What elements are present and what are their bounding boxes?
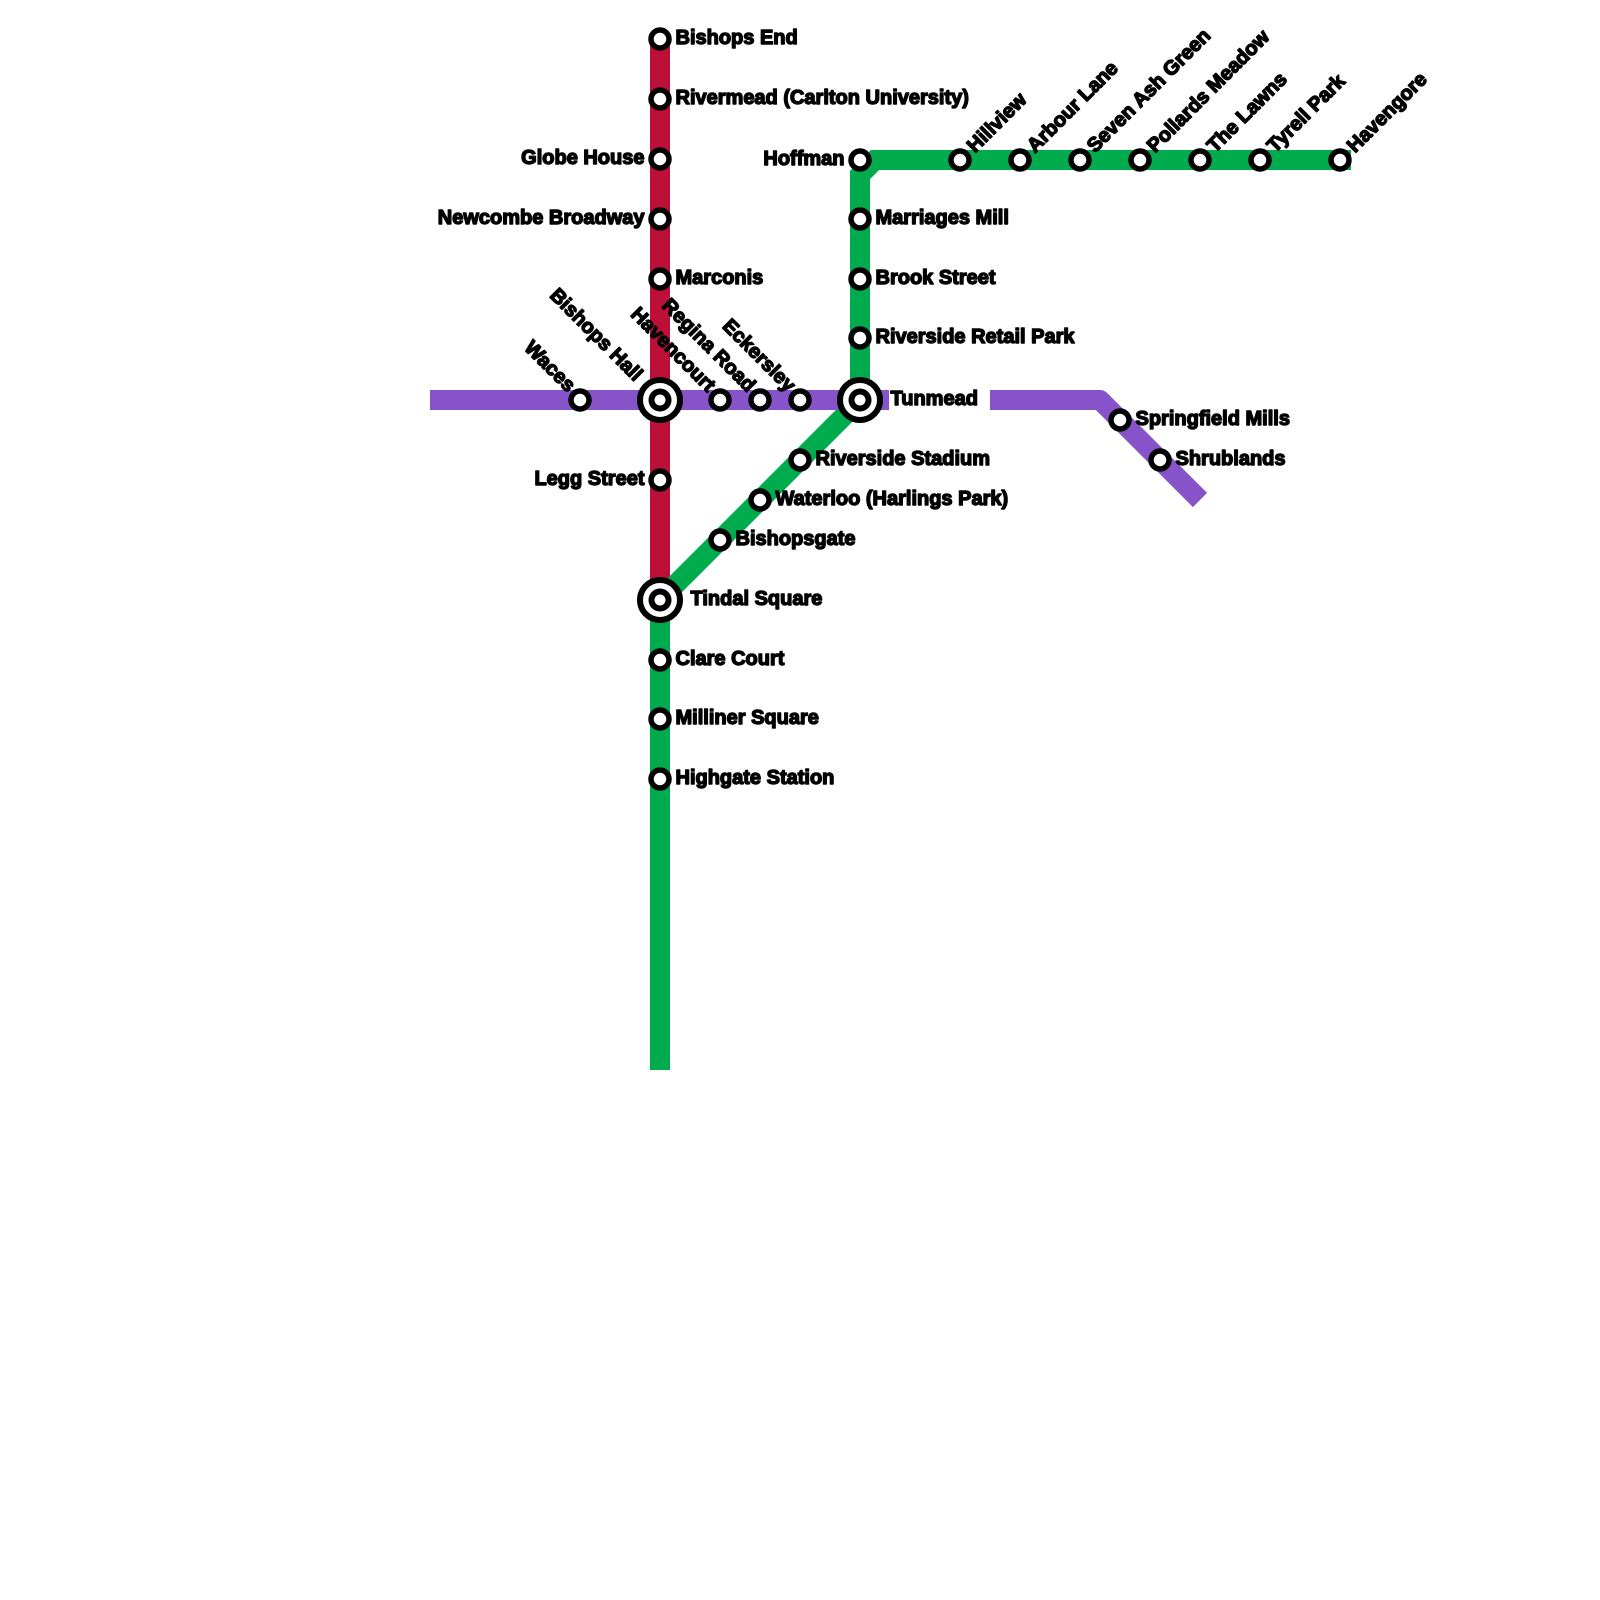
svg-text:Waterloo (Harlings Park): Waterloo (Harlings Park)	[776, 488, 1009, 510]
station circle: Riverside Retail Park	[851, 329, 869, 347]
station circle: Havencourt	[711, 391, 729, 409]
station circle: Tunmead	[840, 380, 880, 420]
svg-text:Springfield Mills: Springfield Mills	[1136, 408, 1290, 430]
station circle: Tyrell Park	[1251, 151, 1269, 169]
station circle: Marconis	[651, 270, 669, 288]
svg-text:Bishopsgate: Bishopsgate	[736, 528, 856, 550]
station circle: Legg Street	[651, 471, 669, 489]
station circle: Pollards Meadow	[1131, 151, 1149, 169]
station circle: Bishops Hall	[640, 380, 680, 420]
svg-text:Brook Street: Brook Street	[876, 267, 996, 289]
station circle: The Lawns	[1191, 151, 1209, 169]
station circle: Shrublands	[1151, 451, 1169, 469]
svg-text:Hoffman: Hoffman	[763, 148, 844, 170]
purple line west segment (west end through Bishops Hall and Tunmead)	[430, 390, 889, 410]
station circle: Marriages Mill	[851, 210, 869, 228]
station circle: Globe House	[651, 150, 669, 168]
station circle: Hoffman	[851, 151, 869, 169]
station circle: Rivermead (Carlton University)	[651, 90, 669, 108]
svg-text:Tindal Square: Tindal Square	[691, 588, 823, 610]
red line (vertical, Bishops End to Tindal Square)	[650, 39, 670, 600]
svg-text:Globe House: Globe House	[521, 147, 644, 169]
svg-text:Marconis: Marconis	[676, 267, 764, 289]
svg-text:Shrublands: Shrublands	[1176, 448, 1286, 470]
station circle: Springfield Mills	[1111, 411, 1129, 429]
station circle: Brook Street	[851, 270, 869, 288]
station circle: Bishopsgate	[711, 531, 729, 549]
station circle: Milliner Square	[651, 710, 669, 728]
station circle: Eckersley	[791, 391, 809, 409]
station circle: Arbour Lane	[1011, 151, 1029, 169]
green line (Havengore west to Hoffman, south to Tunmead, diagonal to Tindal Square, south to end)	[660, 160, 1351, 1070]
station circle: Newcombe Broadway	[651, 210, 669, 228]
station circle: Hillview	[951, 151, 969, 169]
svg-text:Riverside Retail Park: Riverside Retail Park	[876, 326, 1076, 348]
svg-text:Clare Court: Clare Court	[676, 648, 785, 670]
svg-text:Bishops End: Bishops End	[676, 27, 798, 49]
station circle: Waterloo (Harlings Park)	[751, 491, 769, 509]
svg-text:Newcombe Broadway: Newcombe Broadway	[438, 207, 646, 229]
station circle: Bishops End	[651, 30, 669, 48]
svg-text:Highgate Station: Highgate Station	[676, 767, 835, 789]
svg-text:Marriages Mill: Marriages Mill	[876, 207, 1009, 229]
svg-text:Milliner Square: Milliner Square	[676, 707, 819, 729]
station circle: Highgate Station	[651, 770, 669, 788]
station circle: Riverside Stadium	[791, 451, 809, 469]
svg-text:Legg Street: Legg Street	[534, 468, 644, 490]
station circle: Seven Ash Green	[1071, 151, 1089, 169]
svg-text:Riverside Stadium: Riverside Stadium	[816, 448, 991, 470]
station circle: Tindal Square	[640, 580, 680, 620]
station circle: Regina Road	[751, 391, 769, 409]
svg-text:Rivermead (Carlton University): Rivermead (Carlton University)	[676, 87, 969, 109]
svg-text:Tunmead: Tunmead	[891, 388, 978, 410]
station circle: Waces	[571, 391, 589, 409]
station circle: Havengore	[1331, 151, 1349, 169]
purple line east segment (gap for Tunmead label, diagonal to Shrublands end)	[990, 400, 1200, 500]
station circle: Clare Court	[651, 651, 669, 669]
